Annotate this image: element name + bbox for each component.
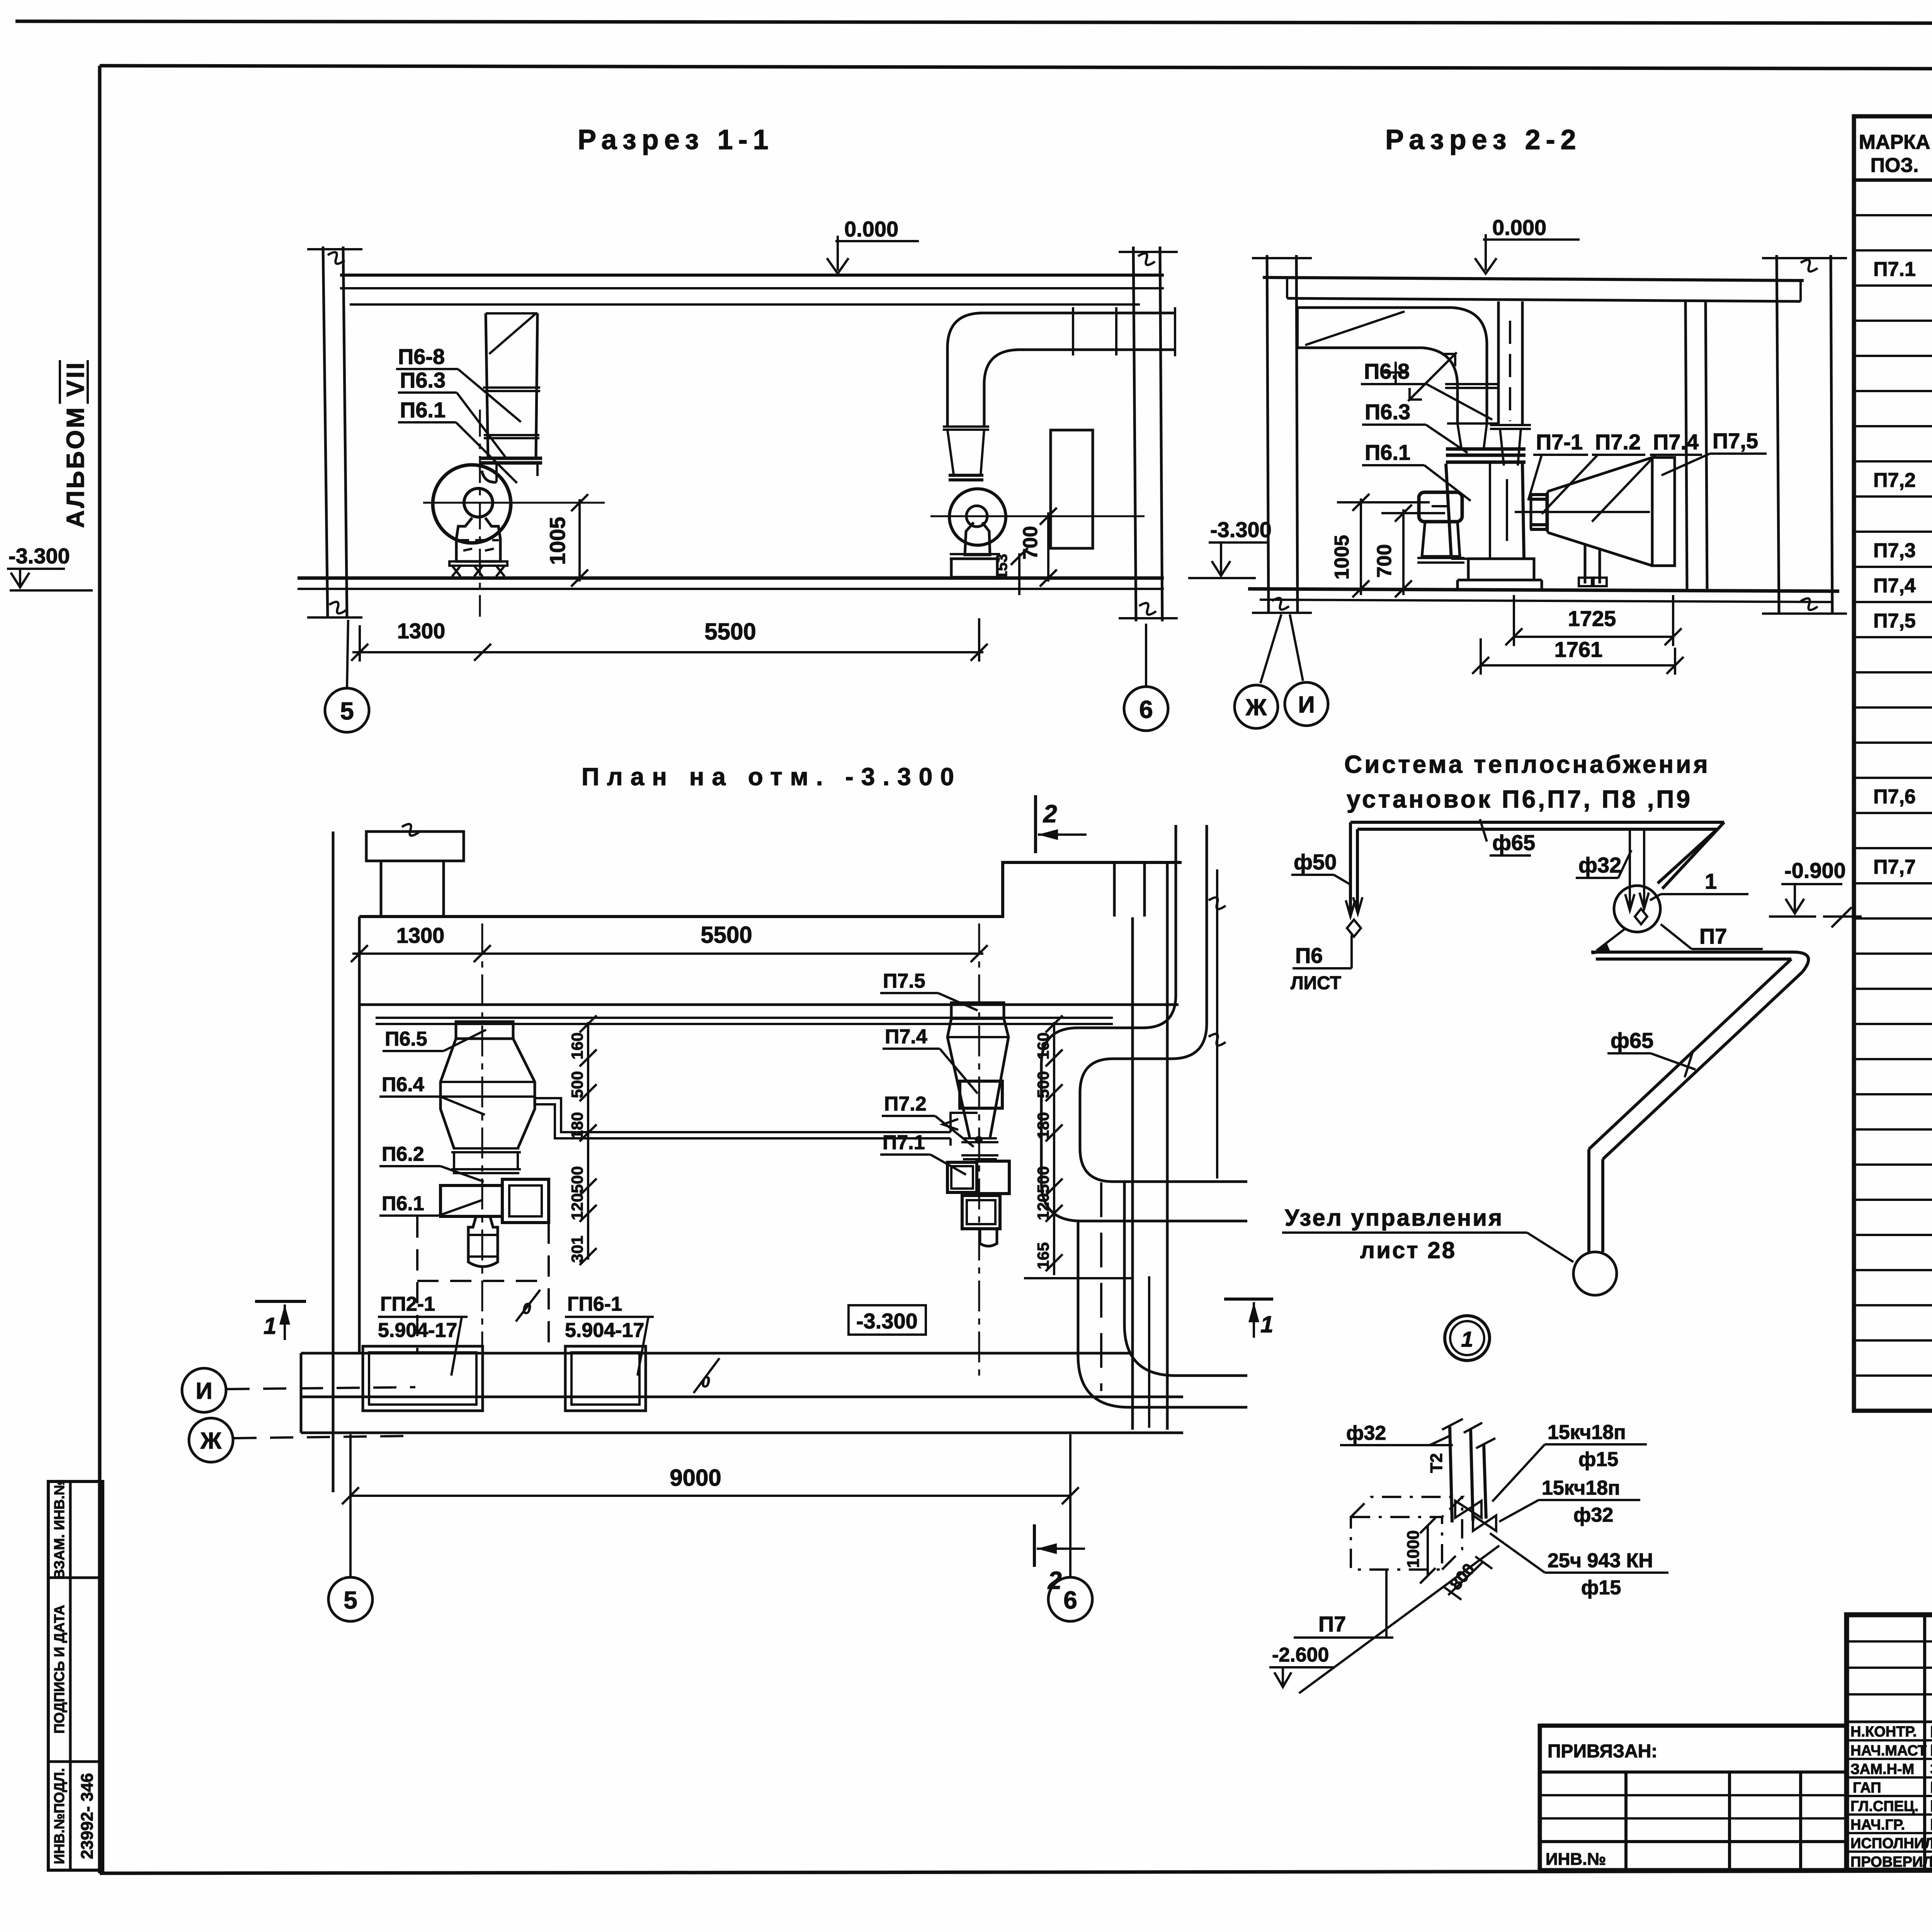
grid circle И: [1285, 682, 1328, 726]
svg-text:700: 700: [1373, 544, 1396, 578]
svg-text:ЕГОРОВ: ЕГОРОВ: [1930, 1778, 1932, 1796]
svg-text:Ж: Ж: [200, 1428, 222, 1454]
vibration isolators: [452, 566, 505, 577]
plan left wall: [333, 832, 359, 1492]
svg-text:ЗЕМЛЯК: ЗЕМЛЯК: [1930, 1760, 1932, 1778]
label П6 лист: [1291, 935, 1352, 993]
svg-text:5: 5: [340, 697, 354, 725]
svg-text:-3.300: -3.300: [856, 1309, 918, 1333]
svg-text:1300: 1300: [397, 619, 446, 643]
control unit circle: [1573, 1252, 1617, 1295]
svg-text:НАЧ.МАСТ: НАЧ.МАСТ: [1850, 1743, 1927, 1759]
right duct exits through wall: [1041, 1148, 1247, 1221]
svg-text:5.904-17: 5.904-17: [565, 1319, 644, 1342]
fan horizontal centerline: [423, 502, 605, 504]
dimension 153: [993, 548, 1028, 595]
axon vertical reference: [1385, 1570, 1388, 1638]
svg-text:-3.300: -3.300: [9, 544, 70, 568]
album label АЛЬБОМ VII rotated: [60, 360, 89, 528]
fan vertical centerline: [479, 410, 481, 617]
svg-text:0.000: 0.000: [844, 217, 898, 241]
svg-text:П7,5: П7,5: [1713, 429, 1758, 453]
GROUP: heating diagram: [1269, 819, 1862, 1693]
svg-text:ПРОВЕРИЛ: ПРОВЕРИЛ: [1850, 1854, 1932, 1870]
svg-text:5: 5: [344, 1586, 357, 1614]
svg-text:ф65: ф65: [1611, 1028, 1653, 1053]
grille flow symbol: [1384, 352, 1457, 401]
floor slab: [1248, 589, 1839, 591]
level -2.600: [1269, 1644, 1334, 1687]
dimension 1000 axon: [1404, 1518, 1435, 1583]
sump pit ГП2-1: [363, 1346, 483, 1411]
svg-text:РАДЫГИН: РАДЫГИН: [1930, 1741, 1932, 1759]
svg-text:500: 500: [568, 1166, 586, 1193]
slope mark 1: [516, 1290, 540, 1321]
dimension 800 axon: [1444, 1556, 1492, 1600]
svg-text:ПОДПИСЬ И ДАТА: ПОДПИСЬ И ДАТА: [51, 1605, 67, 1733]
level -0.900: [1769, 858, 1862, 927]
label 15кч18п ф15: [1492, 1421, 1647, 1502]
level mark -3.300 right: [1188, 517, 1272, 578]
left wall axis: [1252, 255, 1312, 683]
svg-text:П7.1: П7.1: [883, 1131, 925, 1154]
svg-text:П7-1: П7-1: [1536, 430, 1583, 454]
svg-text:П7,4: П7,4: [1873, 575, 1916, 597]
svg-text:1: 1: [1705, 869, 1717, 893]
П7.1 fan scroll small: [949, 489, 1006, 545]
wall panel box: [1051, 430, 1093, 548]
svg-text:500: 500: [568, 1071, 586, 1098]
svg-text:ГЛ.СПЕЦ.: ГЛ.СПЕЦ.: [1850, 1798, 1918, 1815]
spec table header bottom line: [1854, 179, 1932, 182]
ceiling slab lines: [340, 274, 1164, 277]
svg-text:ф32: ф32: [1578, 853, 1621, 877]
right wall axis: [1762, 255, 1847, 614]
svg-text:0: 0: [701, 1374, 710, 1391]
svg-text:КУРОЧКИН: КУРОЧКИН: [1930, 1797, 1932, 1815]
svg-text:П7: П7: [1318, 1612, 1346, 1636]
ceiling beam: [1263, 277, 1804, 301]
svg-text:Ж: Ж: [1245, 694, 1267, 720]
dimension 1761: [1472, 637, 1684, 675]
svg-text:П7.5: П7.5: [883, 970, 925, 992]
floor slab lines: [298, 577, 1164, 580]
svg-text:КУРОЧКИН: КУРОЧКИН: [1930, 1723, 1932, 1741]
svg-text:П7,7: П7,7: [1873, 856, 1916, 878]
label П6.1: [398, 398, 517, 483]
svg-text:установок П6,П7, П8 ,П9: установок П6,П7, П8 ,П9: [1347, 785, 1692, 813]
П7 duct from ceiling: [1490, 301, 1531, 466]
svg-text:ф15: ф15: [1581, 1577, 1621, 1599]
П6.1 motor: [456, 518, 500, 561]
middle column: [1685, 301, 1707, 589]
П6.1 fan scroll: [433, 465, 511, 543]
plan outer top wall line: [359, 862, 1182, 917]
plan axis 5: [328, 1434, 372, 1621]
svg-text:5500: 5500: [701, 922, 752, 948]
П7 heater support: [1579, 544, 1607, 586]
svg-text:П6.5: П6.5: [385, 1028, 427, 1050]
pipe bottom vertical: [1589, 1149, 1603, 1252]
svg-text:П6.4: П6.4: [382, 1073, 424, 1096]
duct run along top wall: [376, 1018, 1113, 1024]
svg-text:ИСПОЛНИЛ: ИСПОЛНИЛ: [1850, 1835, 1932, 1852]
svg-text:П7.4: П7.4: [1653, 430, 1699, 454]
labels П7.5 П7.4 П7.2 П7.1: [880, 970, 978, 1175]
svg-text:П6.1: П6.1: [1365, 440, 1410, 464]
svg-text:6: 6: [1139, 696, 1153, 723]
labels П7-1 П7.2 П7.4: [1528, 430, 1702, 522]
svg-text:23992- 346: 23992- 346: [78, 1773, 97, 1859]
pipe middle horizontal run: [1591, 929, 1808, 972]
title block outer box: [1847, 1615, 1932, 1870]
svg-text:П6: П6: [1295, 943, 1323, 968]
sump pit ГП6-1: [565, 1346, 646, 1411]
grid circle Ж: [1235, 685, 1278, 728]
heating system title: [1344, 750, 1710, 813]
svg-text:ф65: ф65: [1492, 830, 1535, 855]
svg-text:П6.8: П6.8: [1364, 359, 1410, 383]
right column: [1119, 247, 1178, 621]
label ГП6-1 5.904-17: [565, 1293, 654, 1376]
svg-text:ВЗАМ. ИНВ.№: ВЗАМ. ИНВ.№: [51, 1479, 67, 1579]
label П7: [1661, 924, 1763, 949]
sheet top edge line: [15, 21, 1932, 24]
pipe long diagonal down: [1589, 959, 1802, 1159]
svg-text:180: 180: [568, 1112, 586, 1139]
svg-text:0.000: 0.000: [1492, 215, 1546, 240]
label П6.3: [398, 368, 505, 457]
right duct lower run: [1024, 1182, 1247, 1428]
svg-text:ф50: ф50: [1294, 850, 1337, 874]
П6.4 diffuser body: [440, 1039, 535, 1148]
inner frame top line: [100, 66, 1932, 70]
left margin stamp table: [48, 1481, 103, 1870]
level mark 0.000: [827, 217, 919, 274]
svg-text:П6.1: П6.1: [400, 398, 446, 422]
duct elbow to П6.8 riser: [1423, 308, 1487, 423]
svg-text:165: 165: [1034, 1242, 1052, 1269]
dimension 9000: [342, 1465, 1079, 1504]
svg-text:1761: 1761: [1554, 637, 1603, 662]
circled axis 1: [1445, 1316, 1490, 1361]
svg-text:П7.2: П7.2: [884, 1093, 927, 1115]
left column: [307, 247, 362, 618]
svg-text:1: 1: [1260, 1311, 1273, 1337]
dimension 1005: [545, 494, 588, 587]
П7.2 flexible connection: [1530, 495, 1548, 529]
dashed partition near П6: [417, 1216, 549, 1354]
П7.4 heater plan: [960, 1081, 1002, 1108]
svg-text:ПРИВЯЗАН:: ПРИВЯЗАН:: [1548, 1741, 1657, 1762]
section mark 2 bottom: [1034, 1524, 1085, 1594]
left stamp column divider: [69, 1481, 72, 1870]
svg-text:1: 1: [264, 1313, 276, 1339]
svg-text:И: И: [1298, 692, 1315, 718]
svg-text:1005: 1005: [545, 517, 570, 565]
svg-text:КУРОЧКИН: КУРОЧКИН: [1930, 1852, 1932, 1871]
svg-text:П7: П7: [1699, 924, 1727, 948]
svg-text:ПОЗ.: ПОЗ.: [1871, 154, 1919, 177]
П7.1 motor and pedestal: [950, 522, 1000, 577]
spec table body texts: [1873, 188, 1932, 1019]
dimension 1725: [1505, 595, 1682, 646]
label ф32: [1576, 850, 1631, 878]
svg-text:П7,2: П7,2: [1873, 469, 1916, 492]
svg-text:П6.3: П6.3: [400, 368, 446, 392]
axon axis diagonal: [1299, 1546, 1499, 1693]
label П6.3: [1362, 400, 1468, 453]
label 254 943 КН ф15: [1490, 1533, 1668, 1599]
spec table outer border: [1854, 116, 1932, 1411]
svg-text:И: И: [196, 1378, 212, 1404]
svg-text:План на отм. -3.300: План на отм. -3.300: [582, 763, 962, 791]
svg-text:1725: 1725: [1568, 606, 1616, 631]
grid axis 6: [1124, 624, 1168, 731]
svg-text:П6-8: П6-8: [398, 344, 445, 369]
top-left wall column block: [366, 824, 464, 917]
svg-text:Разрез 2-2: Разрез 2-2: [1385, 124, 1582, 155]
svg-text:9000: 9000: [670, 1465, 721, 1491]
svg-text:-0.900: -0.900: [1784, 858, 1846, 883]
svg-text:ф15: ф15: [1578, 1448, 1618, 1471]
label П7 axon: [1294, 1612, 1393, 1638]
svg-text:ф32: ф32: [1573, 1504, 1613, 1526]
П6 supply duct riser: [483, 313, 540, 457]
П7 dimension chain: [1034, 1015, 1063, 1275]
svg-text:160: 160: [568, 1032, 586, 1060]
svg-text:ИНВ.№: ИНВ.№: [1546, 1850, 1606, 1869]
inner frame bottom line: [100, 1870, 1932, 1873]
GROUP: plan: [182, 763, 1273, 1621]
П6 unit plan centerline: [481, 923, 483, 1378]
label П6-8: [396, 344, 521, 422]
svg-text:П7,3: П7,3: [1873, 539, 1916, 562]
dimension 700: [1019, 508, 1057, 587]
П6.1 fan body section2: [1446, 464, 1524, 559]
slope mark 2: [694, 1358, 719, 1393]
svg-text:153: 153: [993, 554, 1010, 580]
label ф32 axon: [1340, 1422, 1453, 1445]
П7 fan elbow duct: [943, 307, 1175, 480]
pipe top horizontal run ф65: [1350, 822, 1724, 829]
П7.4 heater cone: [1515, 457, 1675, 566]
label П7,5: [1662, 429, 1767, 475]
label Узел управления лист 28: [1282, 1205, 1573, 1263]
П6 riser joints: [1445, 384, 1526, 462]
svg-text:П7.2: П7.2: [1595, 430, 1641, 454]
motor base plate: [449, 561, 507, 566]
section mark 2 top: [1036, 795, 1087, 853]
plan axis И: [182, 1368, 415, 1412]
axon dashed equipment box: [1351, 1497, 1462, 1570]
svg-text:Система теплоснабжения: Система теплоснабжения: [1344, 750, 1710, 778]
right duct risers top: [1114, 825, 1207, 1023]
inner frame left line: [98, 66, 102, 1873]
П7.5 cone plan: [947, 1019, 1009, 1138]
level mark 0.000: [1475, 215, 1580, 274]
dimension line 1300 5500: [351, 618, 988, 662]
svg-text:П6.3: П6.3: [1365, 400, 1410, 424]
signature names: [1930, 1723, 1932, 1871]
svg-text:1005: 1005: [1331, 535, 1353, 580]
П7.5 collar plan: [951, 1003, 1004, 1019]
svg-text:ГП2-1: ГП2-1: [380, 1293, 435, 1315]
svg-text:Т2: Т2: [1427, 1453, 1446, 1473]
plan axis Ж: [189, 1418, 415, 1462]
dimension 700 section2: [1373, 505, 1445, 597]
label П6.1 section2: [1362, 440, 1471, 501]
GROUP: section 2-2: [1188, 124, 1847, 813]
svg-text:25ч 943 КН: 25ч 943 КН: [1548, 1549, 1653, 1572]
section mark 1 left: [255, 1301, 306, 1340]
spec table row lines: [1854, 215, 1932, 1376]
svg-text:ИНВ.№ПОДЛ.: ИНВ.№ПОДЛ.: [51, 1768, 67, 1864]
exhaust duct at ceiling left: [1298, 308, 1452, 348]
svg-text:1300: 1300: [396, 923, 445, 947]
plan inner top wall line: [359, 1003, 1179, 1006]
svg-text:120: 120: [568, 1193, 586, 1220]
svg-text:301: 301: [568, 1236, 586, 1263]
level mark -3.300 left: [7, 544, 93, 590]
title block signature rows: [1847, 1739, 1932, 1742]
dimension 1300 5500 plan: [351, 922, 988, 962]
axon valve symbols: [1455, 1501, 1496, 1531]
П7 branch drop: [1625, 829, 1649, 910]
П6.2 flexible insert plan: [451, 1148, 521, 1173]
labels П6.5 П6.4 П6.2 П6.1: [379, 1028, 486, 1216]
GROUP: spec table: [1854, 84, 1932, 1411]
svg-text:180: 180: [1034, 1112, 1052, 1139]
П6 flexible insert flange: [480, 458, 542, 482]
svg-text:15кч18п: 15кч18п: [1542, 1477, 1620, 1499]
svg-text:НАЧ.ГР.: НАЧ.ГР.: [1850, 1817, 1905, 1833]
svg-text:ЛИСТ: ЛИСТ: [1291, 973, 1341, 993]
signature role labels: [1850, 1724, 1932, 1870]
svg-text:АЛЬБОМ VII: АЛЬБОМ VII: [61, 361, 89, 528]
svg-text:МАРКА: МАРКА: [1859, 131, 1930, 153]
svg-text:Н.КОНТР.: Н.КОНТР.: [1850, 1724, 1917, 1740]
plan right wall: [1133, 862, 1226, 1430]
svg-text:Узел управления: Узел управления: [1285, 1205, 1503, 1231]
svg-text:ЗАМ.Н-М: ЗАМ.Н-М: [1850, 1761, 1914, 1777]
label 1 with leader: [1650, 869, 1748, 900]
П7.2 flexible insert plan: [961, 1138, 998, 1159]
label ф65 top: [1480, 819, 1535, 855]
axon detail riser pipes: [1427, 1419, 1495, 1522]
П6 dimension chain: [568, 1015, 597, 1265]
section mark 1 right: [1224, 1299, 1273, 1338]
title block signature zone top small rows: [1847, 1640, 1932, 1643]
П7 unit circle: [1614, 886, 1660, 932]
svg-text:6: 6: [1063, 1586, 1077, 1614]
svg-text:500: 500: [1034, 1071, 1052, 1098]
svg-text:-2.600: -2.600: [1272, 1644, 1329, 1666]
П7.1 fan plan: [947, 1161, 1009, 1246]
GROUP: section 1-1: [7, 124, 1178, 732]
svg-text:ГП6-1: ГП6-1: [567, 1293, 622, 1315]
svg-text:1: 1: [1461, 1327, 1473, 1351]
left stamp row divider 1: [48, 1577, 103, 1579]
dimension 1005 section2: [1331, 494, 1430, 597]
plan axis 6: [1048, 1434, 1092, 1621]
svg-text:-3.300: -3.300: [1210, 517, 1272, 542]
П6.1 fan plan: [440, 1179, 549, 1267]
svg-text:1000: 1000: [1404, 1530, 1423, 1568]
title block signature zone verticals: [1923, 1615, 1926, 1870]
П6.1 fan inlet: [464, 488, 493, 517]
svg-text:МЕШКОВА: МЕШКОВА: [1930, 1815, 1932, 1833]
label П6.8: [1361, 359, 1492, 420]
svg-text:П7.1: П7.1: [1873, 258, 1916, 281]
svg-text:ГАП: ГАП: [1853, 1780, 1881, 1796]
level box -3.300: [849, 1305, 926, 1335]
privyazan box: [1540, 1726, 1847, 1870]
label ф50: [1291, 850, 1351, 885]
label ф65 middle: [1607, 1028, 1696, 1077]
svg-text:П7,6: П7,6: [1873, 786, 1916, 808]
common foundation: [1458, 559, 1542, 589]
svg-text:лист 28: лист 28: [1360, 1237, 1456, 1263]
svg-text:Разрез 1-1: Разрез 1-1: [578, 124, 774, 155]
plan bottom wall: [301, 1353, 1183, 1433]
svg-text:2: 2: [1043, 800, 1057, 828]
svg-text:ИВАНОВА: ИВАНОВА: [1930, 1834, 1932, 1852]
pipe corner diagonal to П7: [1658, 822, 1724, 889]
svg-text:П6.2: П6.2: [382, 1143, 424, 1165]
GROUP: title block: [1540, 1411, 1932, 1925]
П6 motor boxy: [1417, 492, 1464, 563]
svg-text:П7.4: П7.4: [885, 1026, 927, 1048]
heat pipe run П6 to П7: [535, 1098, 983, 1146]
label ГП2-1 5.904-17: [378, 1293, 468, 1376]
svg-text:0: 0: [522, 1300, 531, 1317]
svg-text:П7,5: П7,5: [1873, 610, 1916, 632]
left stamp row divider 2: [48, 1760, 103, 1763]
svg-text:П6.1: П6.1: [382, 1192, 424, 1215]
П6.5 diffuser collar: [456, 1022, 513, 1039]
right duct upper S-curve: [1041, 995, 1207, 1182]
grid axis 5: [325, 620, 369, 732]
svg-text:15кч18п: 15кч18п: [1548, 1421, 1626, 1444]
svg-text:5500: 5500: [704, 619, 756, 645]
svg-text:ф32: ф32: [1346, 1422, 1386, 1444]
П7 unit plan centerline: [978, 923, 980, 1378]
label 15кч18п ф32: [1499, 1477, 1640, 1526]
pipe left vertical drop: [1346, 822, 1362, 937]
